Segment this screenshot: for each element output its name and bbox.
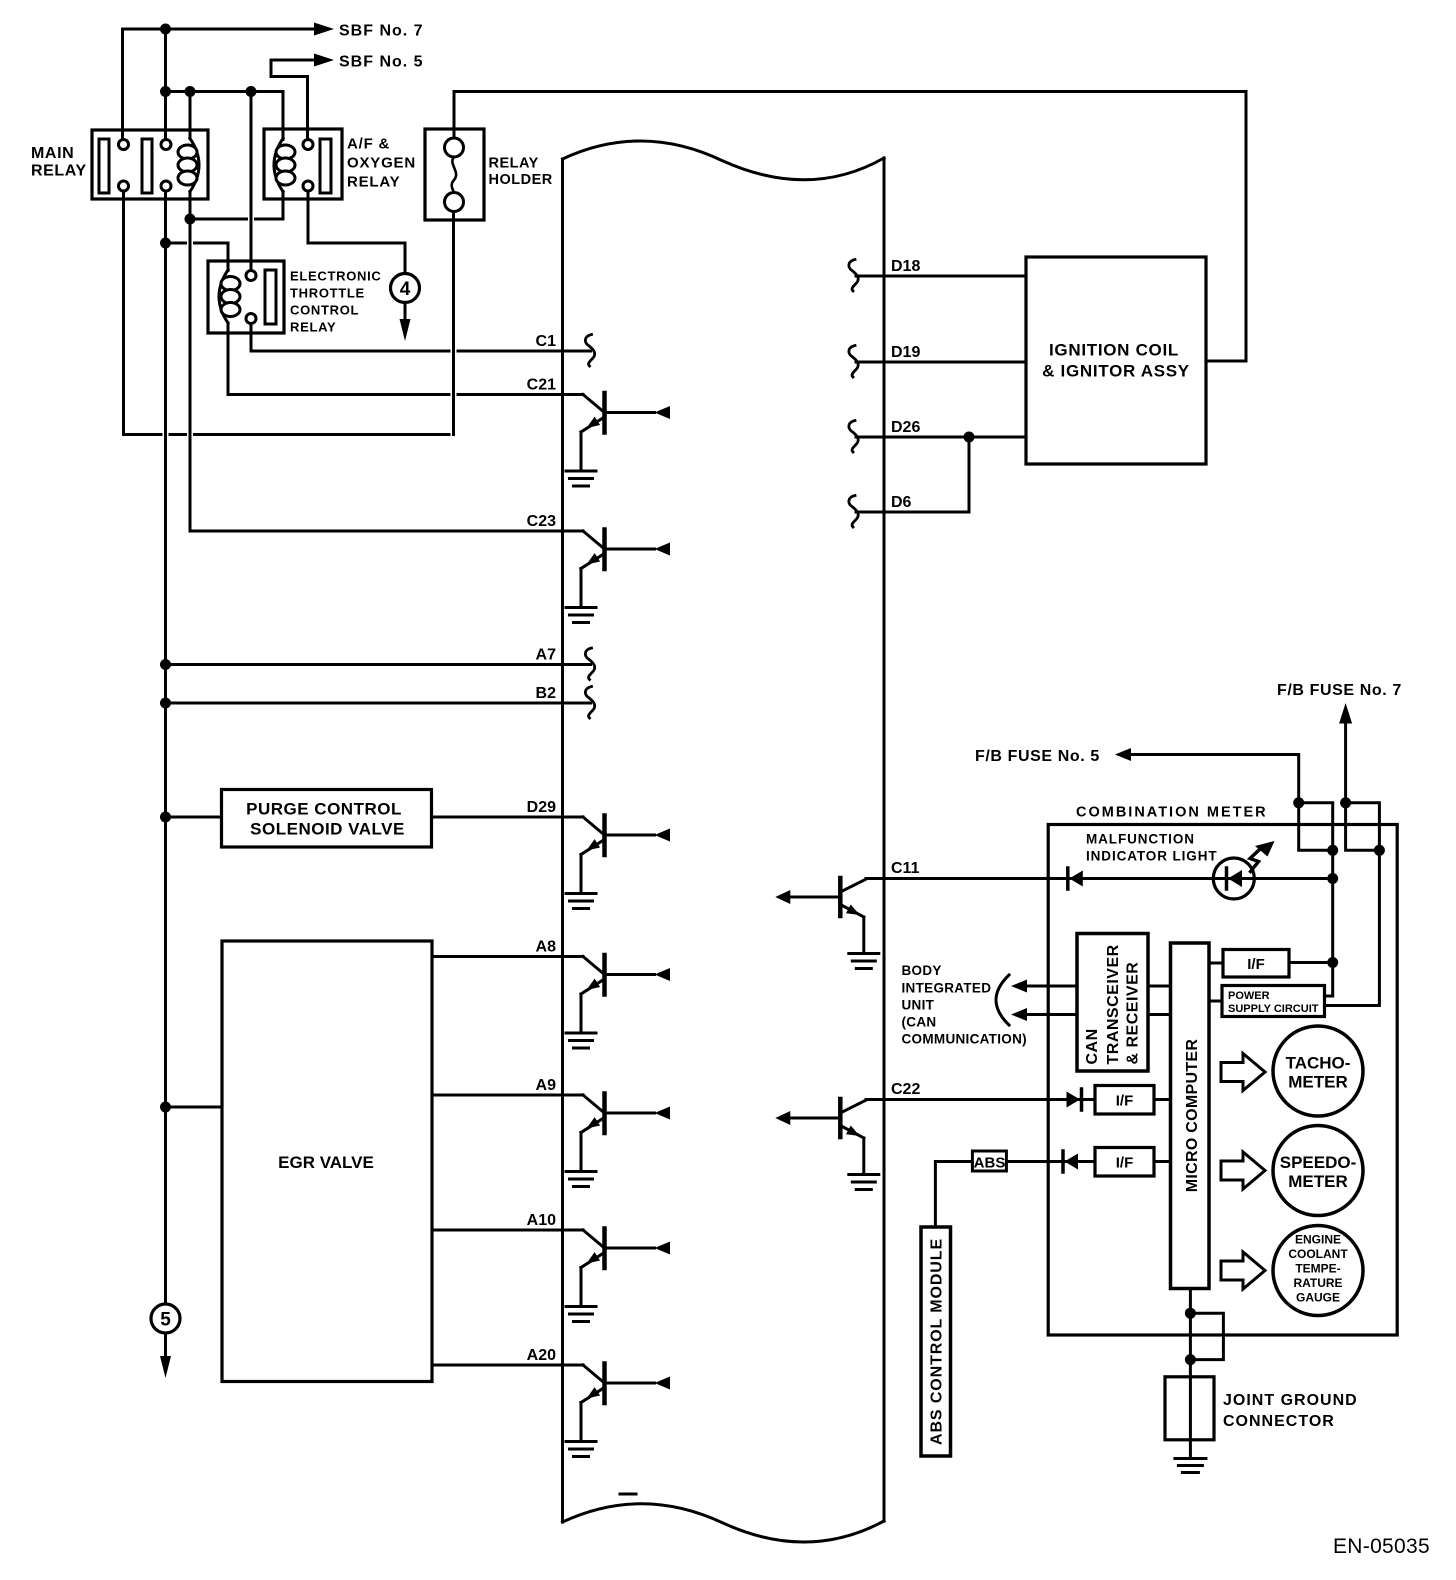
wire ETC relay switch feed x=251 bbox=[250, 92, 253, 271]
svg-text:C11: C11 bbox=[891, 860, 920, 877]
wire power supply drop right bbox=[1325, 850, 1380, 1005]
wire micro computer ground bbox=[1189, 1289, 1192, 1377]
wire fuse loop A bbox=[1299, 803, 1333, 851]
wire SBF No.7 feed bbox=[123, 23, 335, 140]
wire C21 from ETC coil bbox=[228, 323, 583, 395]
wire A10 bbox=[432, 1229, 583, 1232]
svg-text:5: 5 bbox=[160, 1310, 171, 1331]
power supply circuit box bbox=[1222, 986, 1325, 1017]
relay holder F1 bbox=[425, 129, 484, 220]
svg-text:TRANSCEIVER: TRANSCEIVER bbox=[1105, 944, 1122, 1064]
wire MIL supply drop bbox=[1331, 850, 1334, 962]
svg-text:COOLANT: COOLANT bbox=[1288, 1247, 1348, 1261]
svg-text:INDICATOR LIGHT: INDICATOR LIGHT bbox=[1086, 849, 1218, 864]
tachometer gauge bbox=[1273, 1026, 1363, 1116]
svg-text:TACHO-: TACHO- bbox=[1286, 1054, 1351, 1073]
wire F/B fuse No.7 bbox=[1339, 703, 1352, 803]
main relay K1 bbox=[92, 130, 208, 199]
svg-text:& IGNITOR ASSY: & IGNITOR ASSY bbox=[1042, 362, 1190, 381]
break B2 bbox=[585, 687, 594, 719]
svg-text:BODY: BODY bbox=[902, 963, 942, 978]
svg-text:SUPPLY CIRCUIT: SUPPLY CIRCUIT bbox=[1228, 1003, 1319, 1015]
wire bus to ETC coil y=243 bbox=[166, 243, 229, 271]
break D19 bbox=[849, 346, 858, 378]
svg-text:POWER: POWER bbox=[1228, 990, 1270, 1002]
ABS tag box bbox=[972, 1151, 1006, 1172]
svg-text:C21: C21 bbox=[527, 377, 556, 394]
svg-text:A8: A8 bbox=[536, 939, 557, 956]
wire A9 bbox=[432, 1094, 583, 1097]
svg-text:D26: D26 bbox=[891, 419, 920, 436]
wire top distribution bus y=91.5 bbox=[166, 92, 284, 140]
svg-text:MALFUNCTION: MALFUNCTION bbox=[1086, 832, 1195, 847]
transistor Q9 (C22) bbox=[775, 1099, 879, 1190]
svg-text:EN-05035: EN-05035 bbox=[1333, 1535, 1430, 1558]
wire ground bypass loop bbox=[1190, 1313, 1223, 1359]
wire CAN to body integrated upper bbox=[1011, 980, 1077, 993]
combination meter box bbox=[1048, 825, 1397, 1336]
node junction C bbox=[1327, 845, 1338, 856]
break D18 bbox=[849, 260, 858, 292]
wire B2 bbox=[166, 702, 591, 705]
wire C23 from main relay coil bbox=[190, 530, 583, 533]
svg-text:THROTTLE: THROTTLE bbox=[290, 286, 365, 301]
svg-text:ENGINE: ENGINE bbox=[1295, 1233, 1341, 1247]
node junction bus/ETC coil bbox=[160, 238, 171, 249]
svg-text:B2: B2 bbox=[536, 685, 557, 702]
wire D29 bbox=[432, 816, 584, 819]
node junction bus/B2 bbox=[160, 698, 171, 709]
break D6 bbox=[849, 496, 858, 528]
svg-text:I/F: I/F bbox=[1247, 956, 1265, 973]
svg-text:4: 4 bbox=[400, 279, 411, 300]
svg-text:A10: A10 bbox=[527, 1212, 556, 1229]
wire F/B fuse No.5 bbox=[1115, 748, 1299, 803]
LED MIL bbox=[1213, 841, 1274, 899]
transistor Q8 (C11) bbox=[775, 878, 879, 969]
svg-text:I/F: I/F bbox=[1116, 1155, 1134, 1172]
svg-text:TEMPE-: TEMPE- bbox=[1295, 1262, 1340, 1276]
svg-text:(CAN: (CAN bbox=[902, 1015, 937, 1030]
node junction ground 1 bbox=[1185, 1308, 1196, 1319]
block arrow tachometer bbox=[1221, 1054, 1265, 1091]
wire D19 bbox=[856, 361, 1026, 364]
diode D2 (C22) bbox=[1067, 1089, 1082, 1110]
electronic throttle control relay K3 bbox=[208, 261, 284, 333]
node junction ground 2 bbox=[1185, 1354, 1196, 1365]
node junction bus/main relay bbox=[160, 86, 171, 97]
svg-text:F/B FUSE No. 7: F/B FUSE No. 7 bbox=[1277, 682, 1402, 699]
svg-text:RELAY: RELAY bbox=[290, 320, 336, 335]
engine coolant temperature gauge bbox=[1273, 1226, 1363, 1316]
speedometer gauge bbox=[1273, 1126, 1363, 1216]
svg-text:MAIN: MAIN bbox=[31, 145, 74, 162]
svg-text:ABS CONTROL MODULE: ABS CONTROL MODULE bbox=[929, 1238, 946, 1445]
circled 4 connector bbox=[391, 274, 420, 342]
svg-text:SBF No. 7: SBF No. 7 bbox=[339, 23, 424, 40]
svg-text:RELAY: RELAY bbox=[489, 156, 539, 172]
svg-text:OXYGEN: OXYGEN bbox=[347, 155, 416, 172]
node junction bus/purge bbox=[160, 812, 171, 823]
ground joint connector bbox=[1175, 1459, 1206, 1473]
purge control solenoid valve box bbox=[222, 790, 432, 848]
wire ABS row bbox=[935, 1162, 1095, 1228]
node junction MIL bbox=[1327, 873, 1338, 884]
wire D6 bbox=[856, 437, 969, 512]
svg-text:EGR VALVE: EGR VALVE bbox=[278, 1153, 374, 1172]
wire micro to I/F top bbox=[1209, 962, 1223, 965]
transistor Q4 (A8) bbox=[566, 955, 670, 1048]
svg-text:A9: A9 bbox=[536, 1077, 557, 1094]
I/F box top bbox=[1223, 950, 1289, 978]
wire C11 bbox=[866, 877, 1332, 880]
brace CAN communication bbox=[996, 975, 1009, 1025]
wire EGR valve feed bbox=[166, 1106, 223, 1109]
wire C22 bbox=[866, 1098, 1095, 1101]
svg-text:MICRO COMPUTER: MICRO COMPUTER bbox=[1184, 1039, 1201, 1193]
svg-text:CONTROL: CONTROL bbox=[290, 303, 359, 318]
svg-text:CONNECTOR: CONNECTOR bbox=[1223, 1413, 1335, 1430]
node junction B bbox=[1340, 797, 1351, 808]
svg-text:COMBINATION METER: COMBINATION METER bbox=[1076, 805, 1268, 821]
svg-text:D6: D6 bbox=[891, 494, 912, 511]
svg-text:D19: D19 bbox=[891, 344, 920, 361]
wire main relay coil feed x=190 bbox=[189, 92, 192, 139]
wire I/F bottom to micro bbox=[1154, 1160, 1171, 1163]
wire CAN to body integrated lower bbox=[1011, 1008, 1077, 1021]
break A7 bbox=[585, 648, 594, 680]
svg-text:A20: A20 bbox=[527, 1347, 556, 1364]
CAN transceiver & receiver box bbox=[1077, 934, 1148, 1072]
svg-text:I/F: I/F bbox=[1116, 1093, 1134, 1110]
transistor Q2 (C23) bbox=[566, 530, 670, 623]
transistor Q3 (D29) bbox=[566, 816, 670, 909]
node junction SBF7/bus bbox=[160, 24, 171, 35]
wire left supply bus vertical x=165.5 bbox=[164, 29, 167, 1304]
svg-text:METER: METER bbox=[1288, 1073, 1348, 1092]
circled 5 connector bbox=[151, 1304, 180, 1378]
svg-text:C23: C23 bbox=[527, 513, 556, 530]
svg-text:PURGE CONTROL: PURGE CONTROL bbox=[246, 800, 402, 819]
node junction bus/A7 bbox=[160, 659, 171, 670]
svg-text:GAUGE: GAUGE bbox=[1296, 1291, 1340, 1305]
A/F & oxygen relay K2 bbox=[264, 129, 342, 199]
svg-text:D18: D18 bbox=[891, 258, 920, 275]
svg-text:METER: METER bbox=[1288, 1172, 1348, 1191]
svg-text:F/B FUSE No. 5: F/B FUSE No. 5 bbox=[975, 748, 1100, 765]
node junction coil link bbox=[185, 214, 196, 225]
node junction D26/D6 bbox=[964, 432, 975, 443]
wire D26 bbox=[856, 436, 1026, 439]
node junction bus/coil bbox=[185, 86, 196, 97]
svg-text:A/F &: A/F & bbox=[347, 136, 390, 153]
svg-text:& RECEIVER: & RECEIVER bbox=[1125, 962, 1142, 1065]
ABS control module box bbox=[921, 1227, 951, 1456]
wire purge valve feed bbox=[166, 816, 222, 819]
wire A/F relay switch to circled 4 bbox=[308, 191, 405, 274]
svg-text:CAN: CAN bbox=[1084, 1028, 1101, 1064]
svg-text:SBF No. 5: SBF No. 5 bbox=[339, 54, 424, 71]
transistor Q1 (C21) bbox=[566, 393, 670, 486]
svg-text:UNIT: UNIT bbox=[902, 998, 935, 1013]
wire SBF No.5 feed bbox=[271, 54, 334, 140]
transistor Q5 (A9) bbox=[566, 1094, 670, 1187]
EGR valve box bbox=[222, 941, 432, 1382]
node junction bus/ETC bbox=[246, 86, 257, 97]
joint ground connector box bbox=[1165, 1377, 1214, 1459]
node junction bus/EGR bbox=[160, 1102, 171, 1113]
svg-text:RELAY: RELAY bbox=[31, 163, 87, 180]
ECM block outline bbox=[563, 141, 885, 1542]
wire main relay pin1 down to C1 rail bbox=[124, 191, 454, 435]
svg-text:INTEGRATED: INTEGRATED bbox=[902, 981, 992, 996]
micro computer box bbox=[1171, 943, 1210, 1289]
wire main relay coil to A/F coil link y=219 bbox=[190, 192, 283, 532]
break D26 bbox=[849, 421, 858, 453]
svg-text:ELECTRONIC: ELECTRONIC bbox=[290, 269, 382, 284]
transistor Q7 (A20) bbox=[566, 1364, 670, 1457]
svg-text:COMMUNICATION): COMMUNICATION) bbox=[902, 1032, 1027, 1047]
svg-text:D29: D29 bbox=[527, 799, 556, 816]
svg-text:HOLDER: HOLDER bbox=[489, 172, 553, 188]
svg-text:RATURE: RATURE bbox=[1293, 1276, 1342, 1290]
node junction D bbox=[1374, 845, 1385, 856]
svg-text:RELAY: RELAY bbox=[347, 174, 400, 191]
diode D3 (ABS) bbox=[1063, 1151, 1078, 1172]
block arrow speedometer bbox=[1221, 1152, 1265, 1189]
svg-text:SPEEDO-: SPEEDO- bbox=[1280, 1153, 1357, 1172]
diode D1 (MIL) bbox=[1068, 868, 1083, 889]
wire D18 bbox=[856, 275, 1026, 278]
wire CAN to micro lower bbox=[1148, 1013, 1171, 1016]
svg-text:JOINT GROUND: JOINT GROUND bbox=[1223, 1392, 1358, 1409]
node junction A bbox=[1293, 797, 1304, 808]
wire I/F middle to micro bbox=[1154, 1098, 1171, 1101]
svg-text:A7: A7 bbox=[536, 647, 557, 664]
wire A20 bbox=[432, 1364, 583, 1367]
wire C1 from ETC switch bbox=[251, 326, 591, 352]
break C1 bbox=[585, 335, 594, 367]
svg-text:C22: C22 bbox=[891, 1081, 920, 1098]
transistor Q6 (A10) bbox=[566, 1229, 670, 1322]
svg-text:SOLENOID VALVE: SOLENOID VALVE bbox=[250, 820, 405, 839]
wire micro to power supply bbox=[1209, 1000, 1222, 1003]
wire A7 bbox=[166, 663, 591, 666]
wire I/F to supply node bbox=[1289, 963, 1333, 997]
block arrow coolant gauge bbox=[1221, 1252, 1265, 1289]
I/F box bottom bbox=[1095, 1148, 1154, 1177]
wire A8 bbox=[432, 955, 583, 958]
svg-text:IGNITION COIL: IGNITION COIL bbox=[1049, 341, 1179, 360]
I/F box middle bbox=[1095, 1086, 1154, 1115]
wire fuse loop B bbox=[1346, 803, 1380, 851]
svg-text:C1: C1 bbox=[536, 333, 557, 350]
wire CAN to micro upper bbox=[1148, 985, 1171, 988]
node junction I/F bbox=[1327, 957, 1338, 968]
ignition coil & ignitor assy box bbox=[1026, 257, 1206, 464]
svg-text:ABS: ABS bbox=[974, 1155, 1006, 1172]
wire relay holder top to ignition coil supply bbox=[454, 92, 1246, 362]
